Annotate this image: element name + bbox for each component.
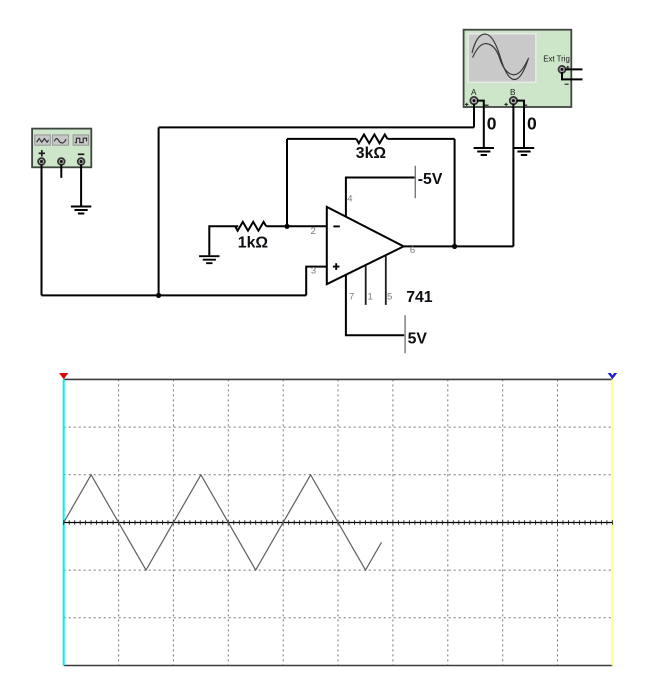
- label -5V: [418, 171, 443, 188]
- label 0 (channel A ground net): [487, 114, 497, 134]
- wire: bottom horizontal net to op-amp + input: [42, 294, 307, 296]
- XFG1 square-wave button: [73, 135, 89, 145]
- ground: XFG1 minus: [71, 207, 91, 214]
- XSC1 channel A plus/minus marks: [465, 103, 489, 106]
- svg-text:5V: 5V: [408, 331, 428, 348]
- XFG1 common terminal: [58, 158, 65, 165]
- svg-text:-5V: -5V: [418, 171, 443, 188]
- U1 inverting input mark: [333, 225, 339, 227]
- U1 pin number 5: [387, 291, 392, 302]
- wire: scope A- jog to ground: [477, 101, 484, 148]
- wire: vertical from junction up to scope A line: [158, 127, 160, 295]
- U1 pin number 4: [347, 193, 352, 204]
- svg-text:741: 741: [406, 289, 433, 306]
- wire: scope B+ drop to output net: [512, 104, 514, 247]
- node: junction output/feedback: [452, 244, 457, 249]
- wire: op-amp output net: [404, 245, 514, 247]
- svg-text:0: 0: [527, 114, 537, 134]
- grapher left cursor handle (red): [59, 373, 68, 379]
- grapher right cursor line (yellow): [611, 379, 613, 665]
- wire: top horizontal to scope channel A: [159, 126, 474, 128]
- grapher right cursor handle (blue): [608, 373, 618, 379]
- XSC1 channel A terminal: [470, 97, 477, 104]
- U1 pin 1 stub: [365, 266, 367, 305]
- XSC1 channel B plus/minus marks: [504, 103, 527, 106]
- U1 pin 4 lead: [346, 178, 415, 218]
- grapher triangle waveform trace: [64, 475, 382, 570]
- XSC1 screen: [468, 34, 536, 82]
- XSC1 screen sine trace 1: [472, 34, 529, 79]
- svg-text:3kΩ: 3kΩ: [356, 145, 387, 162]
- grapher bottom border: [64, 665, 613, 667]
- U1 pin number 3: [311, 266, 316, 277]
- power 5V bar terminal: [404, 315, 406, 353]
- node: junction at op-amp inverting input: [284, 224, 289, 229]
- U1 pin number 1: [368, 291, 373, 302]
- ground: scope channel A: [474, 148, 494, 155]
- wire: feedback right vertical: [454, 139, 456, 247]
- XFG1 minus label: [78, 153, 84, 155]
- label U1 value 741: [406, 289, 433, 306]
- svg-text:1kΩ: 1kΩ: [238, 235, 269, 252]
- XSC1 Ext Trig minus mark: [565, 83, 569, 85]
- svg-text:4: 4: [347, 193, 352, 204]
- label R1 value 1k ohm: [238, 235, 269, 252]
- XSC1 channel B label: [510, 88, 516, 97]
- svg-text:0: 0: [487, 114, 497, 134]
- XSC1 Ext Trig plus mark: [566, 66, 569, 69]
- svg-text:B: B: [510, 88, 516, 97]
- XSC1 channel B terminal: [510, 97, 517, 104]
- op-amp U1 741 triangle: [327, 207, 404, 284]
- U1 pin number 6: [410, 245, 415, 256]
- svg-text:2: 2: [311, 226, 316, 237]
- wire: feedback top right lead: [387, 138, 454, 140]
- wire: scope A+ drop: [473, 104, 475, 128]
- function generator XFG1 body: [32, 129, 91, 168]
- svg-text:5: 5: [387, 291, 392, 302]
- ground: R1 input: [199, 256, 219, 263]
- wire: riser to pin 3: [306, 267, 327, 296]
- svg-text:1: 1: [368, 291, 373, 302]
- U1 pin 5 stub: [385, 256, 387, 305]
- svg-text:7: 7: [349, 291, 354, 302]
- svg-text:Ext Trig: Ext Trig: [543, 55, 570, 64]
- wire: XFG1 + output down: [41, 165, 43, 296]
- resistor R1 1k zigzag: [235, 222, 266, 231]
- ground: scope channel B: [514, 148, 534, 155]
- resistor R2 3k zigzag: [356, 135, 387, 144]
- XFG1 sine-wave button: [53, 135, 69, 145]
- wire: R1 left lead and drop to ground: [209, 226, 238, 255]
- XSC1 Ext Trig terminal: [559, 66, 566, 73]
- wire: R1 right lead: [266, 225, 287, 227]
- wire: scope B- jog to ground: [517, 101, 525, 148]
- XSC1 screen sine trace 2: [473, 44, 528, 75]
- XFG1 triangle-wave button: [35, 135, 51, 145]
- wire: XFG1 minus to ground: [80, 165, 82, 206]
- label 5V: [408, 331, 428, 348]
- grapher left cursor line (cyan): [63, 379, 65, 665]
- label R2 value 3k ohm: [356, 145, 387, 162]
- wire: XFG1 common stub: [60, 165, 62, 178]
- XSC1 Ext Trig label: [543, 55, 570, 64]
- wire: feedback top left lead: [287, 138, 356, 140]
- U1 pin 7 lead: [346, 275, 404, 336]
- XSC1 Ext Trig stub wires: [562, 69, 583, 79]
- grapher top border: [64, 378, 613, 380]
- U1 pin number 2: [311, 226, 316, 237]
- XFG1 plus label: [39, 150, 45, 156]
- wire: feedback left vertical to pin-2 node: [286, 139, 288, 226]
- grapher grid dashed lines: [64, 379, 613, 665]
- grapher x-axis with ticks: [64, 520, 613, 525]
- U1 non-inverting input mark: [333, 263, 340, 270]
- XFG1 minus terminal: [78, 158, 85, 165]
- U1 pin number 7: [349, 291, 354, 302]
- XSC1 channel A label: [471, 88, 477, 97]
- power -5V bar terminal: [414, 166, 416, 198]
- oscilloscope XSC1 body: [464, 30, 572, 107]
- svg-text:3: 3: [311, 266, 316, 277]
- XFG1 plus terminal: [38, 158, 45, 165]
- svg-text:6: 6: [410, 245, 415, 256]
- node: junction at input net: [156, 293, 161, 298]
- wire: pin 2 stub: [287, 225, 328, 227]
- svg-text:A: A: [471, 88, 477, 97]
- label 0 (channel B ground net): [527, 114, 537, 134]
